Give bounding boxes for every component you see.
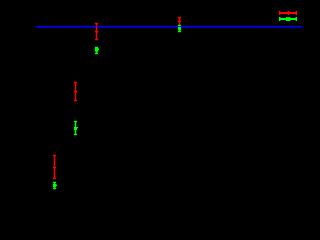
blue horizontal fit line (drawn under the data, fades at both ends)	[34, 26, 305, 28]
red series data point 1 error bar (x=96.5, 23.5-39.5, tick 31.5)	[95, 24, 98, 40]
green series data point 1: square marker + error bar (x=96.5)	[95, 48, 98, 54]
red series data point 3 error bar (x=75.5, 82.5-100.5, tick 91.5)	[74, 83, 77, 101]
legend green sample: errorbar line with end caps and square marker	[279, 17, 296, 21]
green series data point 3: square marker + error bar (x=75.5)	[74, 122, 77, 135]
green series data point 2: square marker + error bar (x=179.5)	[178, 25, 181, 31]
red series data point 2 error bar (x=179.5, bottom hidden under blue line)	[178, 18, 181, 26]
green series data point 4: square marker + error bar (x=54.5)	[53, 183, 56, 189]
red series data point 4 error bar (x=54.5, 155.5-178.5, tick 167.5)	[53, 156, 56, 179]
legend red sample: errorbar line with end caps and centre tick	[279, 11, 296, 15]
